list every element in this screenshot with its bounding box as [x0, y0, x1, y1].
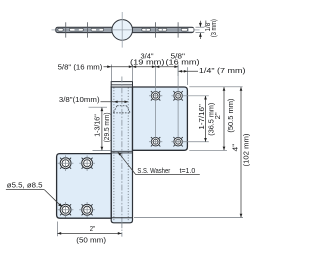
- upper right leaf plate: [133, 87, 188, 150]
- pin barrel (vertical sleeve): [111, 87, 132, 223]
- svg-text:5/8" (16 mm): 5/8" (16 mm): [58, 62, 103, 71]
- hole centerline ticks on strip: [66, 22, 178, 37]
- centre dash-dot line of pin: [121, 77, 123, 224]
- dimension 2in (50.5 mm) vertical right: [223, 87, 225, 150]
- svg-text:3/8"(10mm): 3/8"(10mm): [59, 95, 100, 104]
- dimension chain 5/8, 3/4, 5/8 (top): [104, 66, 179, 68]
- hole lower-leaf top-right: [82, 158, 93, 169]
- dimension 1/4in (7 mm): [179, 70, 199, 72]
- svg-text:(3 mm): (3 mm): [209, 19, 218, 37]
- plan-view horizontal centerline tails: [52, 29, 200, 31]
- svg-text:S.S. Washer: S.S. Washer: [137, 167, 170, 175]
- dimension 4in (102 mm) vertical right: [240, 87, 242, 217]
- knuckle circle (pin boss) in plan view: [112, 20, 133, 41]
- svg-text:(16 mm): (16 mm): [166, 59, 200, 66]
- label S.S. Washer t=1.0 with underline and leader: [118, 152, 136, 174]
- dimension 1-3/16in (29.5 mm) vertical: [101, 108, 103, 151]
- screw slot centre marks: [75, 29, 164, 31]
- hole upper-leaf top-right: [173, 91, 182, 100]
- hole upper-leaf top-left: [151, 91, 160, 100]
- svg-text:(50.5 mm): (50.5 mm): [226, 99, 235, 133]
- S.S. washer band across barrel: [111, 151, 132, 153]
- dimension 2in (50 mm) bottom: [58, 232, 122, 234]
- svg-text:(102 mm): (102 mm): [241, 134, 250, 167]
- bottom knuckle cap line across barrel: [111, 217, 132, 219]
- svg-text:1-7/16": 1-7/16": [197, 104, 206, 130]
- svg-text:t=1.0: t=1.0: [180, 167, 196, 175]
- svg-text:2": 2": [213, 112, 222, 119]
- white end section of strip: [189, 28, 194, 31]
- pin top cap / washer stack: [111, 82, 132, 87]
- svg-text:1-3/16": 1-3/16": [93, 114, 102, 137]
- svg-text:1/4" (7 mm): 1/4" (7 mm): [199, 66, 246, 75]
- hidden pin tip chamfer (dashed trapezoid): [113, 106, 130, 113]
- plan-view leaf strip (edge view of hinge): [56, 27, 194, 32]
- svg-text:(50 mm): (50 mm): [76, 235, 106, 244]
- dimension 1-7/16in (36.5 mm) vertical right: [205, 96, 207, 142]
- hole lower-leaf bottom-right: [82, 204, 93, 215]
- svg-text:4": 4": [230, 143, 239, 151]
- hole lower-leaf top-left (dia 5.5 / 8.5): [60, 158, 71, 169]
- hole upper-leaf bottom-left: [151, 137, 160, 146]
- hole crosshair centerlines: [58, 65, 209, 218]
- svg-text:2": 2": [90, 224, 96, 233]
- lower left leaf plate: [57, 154, 112, 219]
- dimension 1/8in (3 mm) strip thickness: [196, 27, 205, 32]
- hole upper-leaf bottom-right: [173, 137, 182, 146]
- screw slots on strip (dark outlined, white fill): [58, 28, 188, 31]
- svg-text:ø5.5, ø8.5: ø5.5, ø8.5: [7, 181, 43, 190]
- svg-text:(29.5 mm): (29.5 mm): [102, 112, 111, 142]
- svg-text:(19 mm): (19 mm): [130, 59, 165, 66]
- hole lower-leaf bottom-left: [60, 204, 71, 215]
- hidden pin lines (dotted) inside barrel: [114, 88, 128, 222]
- plan-view circle centerlines: [112, 12, 132, 48]
- extension lines: [57, 65, 243, 237]
